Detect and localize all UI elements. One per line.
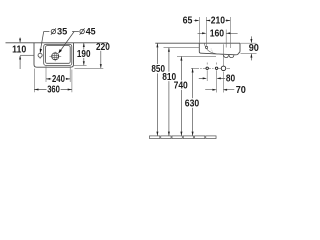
svg-text:220: 220 [96, 42, 110, 53]
ext line tap centerline [205, 17, 207, 46]
dim 240 [45, 66, 47, 82]
ext line front edge [198, 17, 200, 43]
dim 160 [198, 32, 238, 34]
ext 810 [164, 47, 200, 49]
svg-text:210: 210 [211, 16, 226, 27]
rim line [155, 42, 240, 44]
drain centerlines [49, 52, 61, 62]
bowl outer rim [44, 44, 72, 65]
dim 70 [205, 89, 234, 91]
ext line 210 right [229, 17, 231, 48]
svg-text:70: 70 [236, 85, 246, 96]
svg-text:740: 740 [174, 81, 188, 92]
svg-text:360: 360 [47, 85, 60, 96]
basin outline [34, 43, 74, 67]
wall line [6, 42, 109, 44]
tap hole centerline [39, 52, 41, 60]
supply centerline [191, 67, 230, 69]
svg-text:160: 160 [210, 28, 225, 39]
supply circle 1 [206, 67, 208, 69]
svg-text:65: 65 [183, 16, 193, 27]
tap hole (front) [206, 46, 208, 48]
ext 740 [177, 55, 216, 57]
drain trap detail [223, 55, 234, 58]
dim 220 [75, 67, 104, 69]
dim 210 [206, 20, 230, 22]
dim 740 [180, 56, 182, 135]
dim 810 [168, 48, 170, 136]
label Ø45 [80, 28, 85, 34]
supply circle 2 [215, 67, 217, 69]
basin profile [199, 43, 240, 55]
bowl interior arc [204, 43, 223, 54]
ext verticals for 80/70 [206, 63, 208, 82]
svg-text:110: 110 [12, 44, 26, 55]
label Ø35 [51, 28, 56, 34]
dim 630 [192, 68, 194, 136]
drain outlet [221, 66, 226, 71]
svg-text:630: 630 [185, 99, 200, 110]
dim 360 [33, 69, 35, 93]
bowl inner edge [46, 46, 71, 64]
drain Ø45 [51, 52, 60, 61]
hidden overflow dots [211, 49, 213, 52]
floor bar [150, 136, 217, 139]
dim 190 [74, 64, 87, 66]
dim 90 [241, 42, 257, 44]
svg-text:45: 45 [86, 26, 96, 36]
drain centerline vertical [222, 44, 224, 66]
svg-text:80: 80 [226, 73, 236, 84]
tap hole [38, 53, 42, 57]
svg-text:190: 190 [77, 49, 91, 60]
leader Ø35 [41, 32, 50, 51]
svg-text:90: 90 [249, 43, 259, 54]
dim 110 [19, 38, 21, 43]
dim 80 [199, 77, 225, 79]
svg-text:35: 35 [57, 26, 67, 36]
dim 850 [156, 43, 158, 136]
leader Ø45 [60, 32, 79, 52]
ext line 160 right [225, 30, 227, 48]
